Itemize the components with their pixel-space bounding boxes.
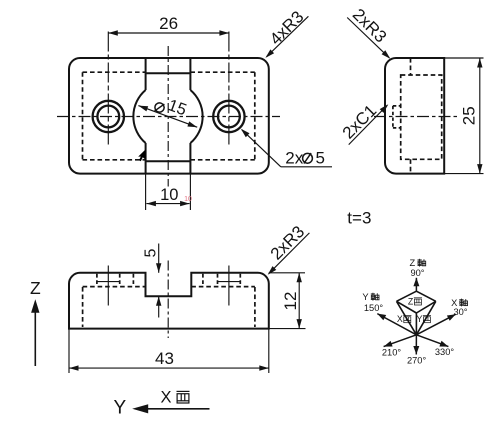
svg-text:5: 5 — [143, 248, 160, 257]
svg-text:43: 43 — [155, 349, 174, 368]
svg-text:30°: 30° — [453, 307, 467, 317]
svg-text:Y: Y — [362, 292, 368, 302]
svg-text:25: 25 — [460, 106, 479, 125]
svg-text:330°: 330° — [435, 347, 455, 357]
svg-text:X: X — [160, 388, 171, 406]
svg-text:10: 10 — [160, 186, 178, 204]
svg-text:X: X — [397, 314, 403, 324]
svg-text:26: 26 — [159, 14, 178, 33]
svg-text:Y: Y — [416, 314, 422, 324]
svg-text:Y: Y — [113, 398, 126, 419]
svg-text:t=3: t=3 — [347, 209, 371, 228]
svg-text:5: 5 — [316, 148, 325, 167]
svg-text:Z: Z — [30, 278, 41, 298]
svg-text:90°: 90° — [410, 268, 424, 278]
svg-text:2x: 2x — [285, 148, 303, 167]
svg-text:10: 10 — [184, 196, 192, 203]
svg-text:210°: 210° — [382, 348, 402, 358]
svg-text:Z: Z — [409, 258, 415, 268]
svg-text:150°: 150° — [364, 303, 384, 313]
svg-text:270°: 270° — [407, 356, 427, 366]
svg-text:12: 12 — [281, 292, 300, 311]
svg-text:Z: Z — [408, 297, 414, 307]
